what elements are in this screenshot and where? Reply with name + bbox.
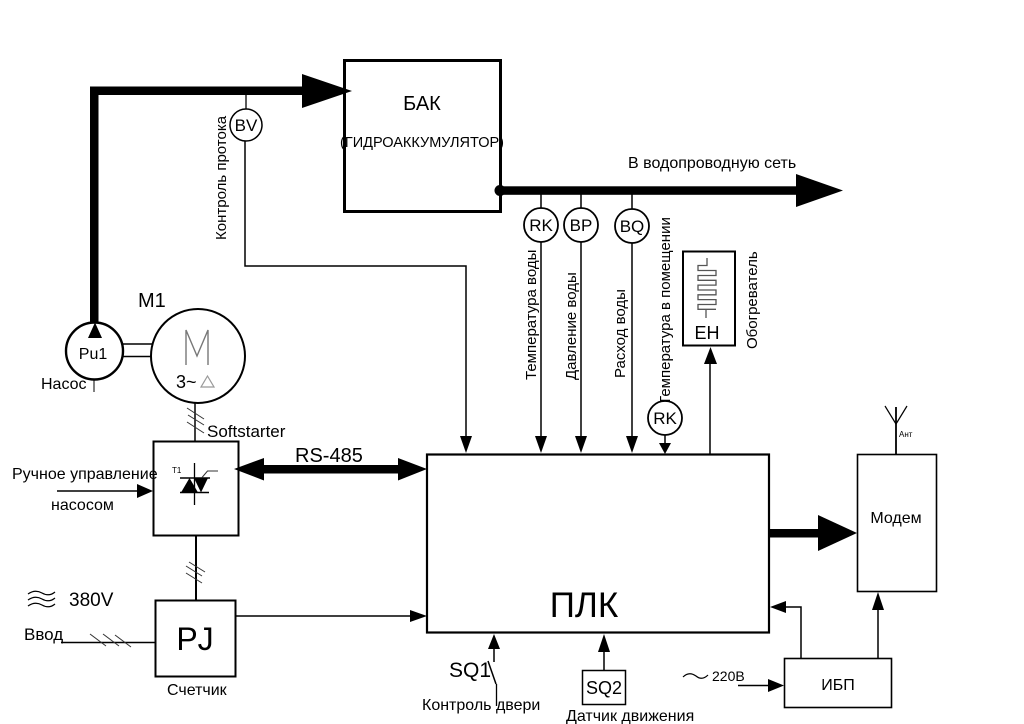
svg-text:Давление воды: Давление воды	[563, 272, 580, 380]
svg-text:Температура в помещении: Температура в помещении	[657, 217, 674, 405]
svg-text:3~: 3~	[176, 372, 197, 392]
svg-text:RS-485: RS-485	[295, 445, 363, 467]
coupling pump to motor	[122, 344, 152, 357]
tank BAK box	[345, 61, 501, 212]
svg-text:RK: RK	[653, 409, 677, 428]
wire PLC to modem (thick)	[769, 515, 857, 551]
wire input to PJ	[61, 642, 155, 644]
svg-text:насосом: насосом	[51, 497, 114, 514]
wire PJ to PLC	[236, 610, 427, 622]
hatch marks (3-phase) motor wire	[187, 408, 204, 433]
svg-text:(ГИДРОАККУМУЛЯТОР): (ГИДРОАККУМУЛЯТОР)	[340, 135, 504, 151]
antenna	[885, 406, 907, 454]
svg-text:Pu1: Pu1	[79, 346, 108, 363]
sensor RK (water temperature)	[524, 194, 558, 242]
svg-text:EH: EH	[694, 323, 719, 343]
svg-text:ИБП: ИБП	[821, 677, 855, 694]
switch SQ1	[488, 634, 500, 706]
wire BP to PLC	[575, 242, 587, 453]
heater coil element	[698, 258, 716, 318]
svg-text:Насос: Насос	[41, 376, 87, 393]
svg-text:Счетчик: Счетчик	[167, 682, 228, 699]
hatch marks input wire	[90, 634, 131, 647]
hatch marks (3-phase) PJ wire	[186, 562, 205, 583]
wire pipe from pump Pu1 to tank (thick)	[90, 74, 352, 324]
wire pipe tank to water network (thick)	[495, 174, 844, 207]
wire motor to softstarter	[194, 403, 196, 441]
wire UPS to modem	[872, 592, 884, 658]
svg-text:Контроль двери: Контроль двери	[422, 697, 540, 714]
svg-text:SQ1: SQ1	[449, 659, 491, 682]
symbol three-phase waves	[28, 591, 55, 607]
triac T1	[180, 463, 218, 505]
symbol AC tilde 220V	[683, 674, 708, 679]
svg-text:Ручное управление: Ручное управление	[12, 466, 158, 483]
svg-text:Softstarter: Softstarter	[207, 422, 286, 441]
sensor BV	[230, 95, 262, 141]
svg-text:Модем: Модем	[870, 510, 921, 527]
svg-text:BQ: BQ	[620, 217, 645, 236]
wire UPS to PLC	[770, 601, 801, 658]
wire 220V to UPS	[738, 679, 784, 692]
PLC box	[427, 455, 769, 633]
svg-text:M1: M1	[138, 290, 166, 312]
svg-text:220В: 220В	[712, 668, 745, 684]
wire RK to PLC	[535, 242, 547, 453]
sensor BQ (flow)	[615, 194, 649, 243]
motor M1	[151, 309, 245, 403]
sensor BP (pressure)	[564, 194, 598, 242]
svg-text:Расход воды: Расход воды	[612, 289, 629, 378]
svg-text:Датчик движения: Датчик движения	[566, 708, 694, 724]
modem box	[858, 455, 937, 592]
svg-text:BP: BP	[570, 216, 593, 235]
svg-text:SQ2: SQ2	[586, 678, 622, 698]
svg-text:RK: RK	[529, 216, 553, 235]
svg-text:Контроль протока: Контроль протока	[213, 115, 230, 240]
heater EH box	[683, 252, 735, 346]
wire BQ to PLC	[626, 243, 638, 453]
svg-text:Температура воды: Температура воды	[523, 250, 540, 380]
RS-485 bus arrow	[234, 458, 427, 481]
svg-text:Ввод: Ввод	[24, 625, 63, 644]
svg-text:БАК: БАК	[403, 93, 441, 115]
wire SQ2 to PLC	[598, 634, 610, 670]
wire PLC to heater EH	[704, 347, 717, 454]
wire BV to PLC	[245, 141, 472, 453]
svg-text:T1: T1	[172, 466, 182, 475]
softstarter box	[154, 442, 239, 536]
wire manual control arrow	[57, 484, 153, 498]
sensor RK (room temperature)	[648, 401, 682, 435]
pump Pu1	[66, 323, 123, 393]
svg-text:380V: 380V	[69, 590, 114, 611]
svg-text:ПЛК: ПЛК	[550, 586, 619, 625]
svg-text:Ант: Ант	[899, 430, 913, 439]
motion sensor SQ2 box	[583, 671, 626, 705]
svg-text:В водопроводную сеть: В водопроводную сеть	[628, 155, 796, 172]
meter PJ box	[156, 601, 236, 677]
svg-text:Обогреватель: Обогреватель	[744, 251, 761, 349]
svg-text:PJ: PJ	[176, 621, 213, 657]
wire softstarter to PJ	[195, 536, 197, 600]
svg-text:BV: BV	[235, 116, 258, 135]
UPS box	[785, 659, 892, 708]
wire room RK to PLC	[659, 435, 671, 454]
